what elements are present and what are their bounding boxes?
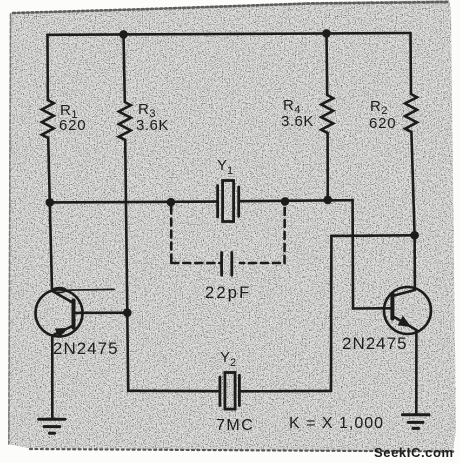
wire: R1 bottom to node A	[48, 138, 50, 202]
resistor R3	[119, 102, 131, 140]
watermark SeekIC.com	[374, 445, 454, 460]
label Y2	[220, 349, 236, 369]
wire: node B feedback left	[331, 234, 414, 237]
svg-text:2N2475: 2N2475	[342, 334, 408, 353]
value 620 (R2)	[369, 115, 396, 132]
value 22pF (C1)	[205, 284, 251, 302]
capacitor C1 plates	[222, 253, 232, 276]
value 3.6K (R4)	[281, 113, 314, 130]
transistor Q1 collector diagonal	[52, 291, 73, 303]
label R3	[138, 101, 156, 120]
svg-text:Y2: Y2	[220, 349, 236, 369]
node A junction dot (left collector node)	[46, 198, 55, 207]
svg-text:620: 620	[59, 117, 86, 134]
svg-text:620: 620	[369, 115, 396, 132]
transistor Q2 emitter arrow	[398, 316, 412, 327]
wire: node B down to Q2 collector	[413, 235, 416, 289]
wire: R2 column top (rail corner to R2)	[409, 33, 412, 94]
wire: Y2 right lead	[241, 390, 331, 393]
crystal Y2	[220, 373, 240, 410]
label R1	[60, 102, 78, 121]
svg-text:22pF: 22pF	[205, 284, 251, 302]
label R2	[370, 98, 388, 117]
junction dot rail/R4	[322, 29, 331, 38]
svg-text:SeekIC.com: SeekIC.com	[374, 445, 454, 460]
wire: R3 bottom down to Q1 base node	[125, 140, 127, 313]
junction dot (dashed branch right)	[281, 197, 290, 206]
svg-text:3.6K: 3.6K	[136, 117, 169, 134]
capacitor C1 dashed branch: right vertical	[283, 206, 286, 263]
junction dot Q1 base node	[123, 308, 132, 317]
resistor R2	[405, 94, 417, 132]
note K = X 1,000	[289, 415, 384, 432]
junction dot (dashed branch left)	[167, 198, 176, 207]
Q1 top artifact ellipse	[53, 288, 66, 293]
wire: node A down to Q1 collector	[50, 202, 52, 290]
wire: R1 column top (rail to R1)	[46, 35, 49, 100]
wire: Q1 base lead	[74, 311, 128, 314]
wire: R4 column top (rail to R4)	[325, 33, 328, 95]
transistor Q1 emitter arrow	[55, 328, 69, 338]
transistor Q2 emitter diagonal	[392, 316, 416, 330]
transistor Q1 circle	[36, 290, 83, 337]
wire: top supply rail	[48, 33, 411, 35]
wire: node A to Y1 left plate	[50, 200, 217, 203]
value 620 (R1)	[59, 117, 86, 134]
ground G2	[403, 415, 430, 429]
resistor R1	[42, 100, 54, 138]
wire: Y1 right plate to corner	[240, 200, 353, 201]
transistor Q2 base bar	[390, 294, 394, 319]
transistor Q1 base bar	[72, 301, 76, 328]
label 2N2475 (Q1)	[53, 339, 119, 358]
svg-text:Y1: Y1	[217, 157, 233, 177]
transistor Q1 emitter diagonal	[52, 326, 73, 336]
capacitor C1 dashed branch: bottom left horizontal	[171, 262, 220, 265]
label R4	[283, 97, 301, 116]
wire: base node down to Y2 left corner	[126, 313, 129, 391]
wire: Y2 left lead	[128, 389, 218, 392]
wire: Q1 emitter down	[51, 336, 54, 419]
label Y1	[217, 157, 233, 177]
wire: R3 column top (rail to R3)	[124, 34, 125, 102]
ground G1	[39, 419, 65, 433]
junction dot rail/R3	[119, 30, 128, 39]
crystal Y1	[218, 181, 239, 222]
svg-text:2N2475: 2N2475	[53, 339, 119, 358]
junction dot R4 bottom	[324, 196, 333, 205]
svg-text:7MC: 7MC	[216, 417, 254, 434]
capacitor C1 dashed branch: bottom right horizontal	[240, 262, 284, 265]
transistor Q2 circle	[384, 287, 431, 334]
value 3.6K (R3)	[136, 117, 169, 134]
node B junction dot (right collector node)	[410, 231, 419, 240]
svg-text:3.6K: 3.6K	[281, 113, 314, 130]
wire: Q2 emitter down	[415, 330, 418, 414]
Q1 artifact line	[66, 288, 114, 291]
wire: corner down to Q2 base	[351, 200, 354, 308]
svg-text:K = X 1,000: K = X 1,000	[289, 415, 384, 432]
label 2N2475 (Q2)	[342, 334, 408, 353]
value 7MC (Y2)	[216, 417, 254, 434]
transistor Q2 collector diagonal	[392, 290, 414, 296]
wire: Q2 base lead	[353, 307, 392, 310]
wire: R4 bottom to wire A	[326, 133, 329, 200]
wire: R2 bottom to node B	[411, 132, 414, 235]
resistor R4	[321, 95, 333, 133]
capacitor C1 dashed branch: left vertical	[170, 207, 173, 264]
wire: feedback down to Y2 right corner	[330, 236, 333, 391]
